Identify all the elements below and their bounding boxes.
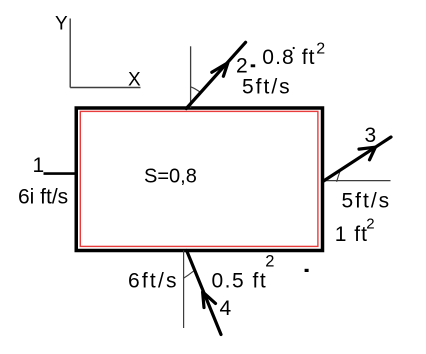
svg-text:5ft/s: 5ft/s — [242, 76, 292, 99]
svg-text:3: 3 — [365, 124, 377, 147]
control volume rectangle — [76, 108, 322, 251]
axis X line — [70, 87, 140, 89]
inlet 4 arrow shaft — [187, 251, 221, 335]
outlet 3 arrowhead — [359, 147, 375, 160]
svg-text:5ft/s: 5ft/s — [342, 190, 392, 213]
svg-text:S=0,8: S=0,8 — [144, 166, 197, 188]
svg-text:6ft/s: 6ft/s — [128, 270, 179, 293]
axis Y line — [69, 19, 71, 88]
svg-text:0.5 ft: 0.5 ft — [212, 270, 268, 293]
outlet 2 arrowhead — [212, 63, 228, 76]
outlet 2 dash — [251, 64, 256, 67]
small dot above — [293, 47, 295, 49]
svg-text:6i ft/s: 6i ft/s — [18, 186, 68, 209]
svg-text:1: 1 — [33, 154, 45, 177]
svg-text:1 ft: 1 ft — [335, 223, 368, 246]
svg-text:2: 2 — [236, 55, 248, 78]
outlet 2 angle arc — [191, 87, 201, 93]
outlet 2 arrow shaft — [186, 42, 245, 108]
svg-text:4: 4 — [220, 297, 232, 320]
inlet 4 angle arc — [183, 271, 193, 278]
inlet 1 stub wire — [44, 172, 77, 175]
svg-text:0.8 ft: 0.8 ft — [262, 46, 315, 69]
outlet 3 reference line — [323, 180, 391, 182]
inner red liner rectangle — [80, 111, 318, 246]
svg-text:X: X — [128, 70, 141, 91]
outlet 3 arrow shaft — [323, 137, 391, 182]
svg-text:2: 2 — [316, 41, 325, 58]
svg-text:Y: Y — [55, 14, 68, 35]
outlet 2 reference line — [190, 46, 192, 108]
svg-text:2: 2 — [366, 216, 374, 233]
inlet 4 reference line — [183, 251, 185, 329]
svg-text:2: 2 — [265, 253, 274, 271]
stray dot — [305, 269, 309, 272]
outlet 3 angle arc — [337, 170, 341, 181]
inlet 4 arrowhead — [203, 292, 216, 308]
